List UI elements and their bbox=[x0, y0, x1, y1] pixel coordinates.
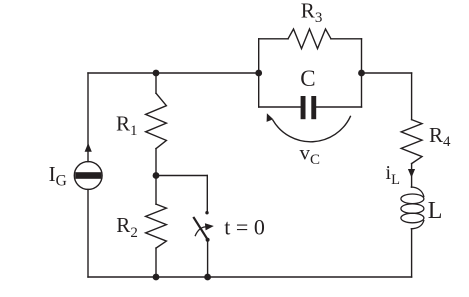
wire node b down to R2 bbox=[155, 176, 157, 205]
wire box right vertical bbox=[361, 39, 363, 107]
wire R4 to inductor with iL arrowhead bbox=[411, 164, 413, 188]
junction node b dot bbox=[153, 172, 160, 179]
current source IG bbox=[74, 143, 102, 189]
svg-text:R1: R1 bbox=[116, 112, 138, 140]
wire box bottom-left stub bbox=[259, 106, 301, 108]
iL current direction arrowhead bbox=[408, 169, 415, 178]
svg-text:R3: R3 bbox=[301, 0, 323, 26]
junction dot box right bbox=[358, 70, 365, 77]
vC polarity arc arrow bbox=[267, 113, 351, 141]
svg-text:C: C bbox=[300, 66, 315, 91]
svg-text:iL: iL bbox=[386, 162, 400, 188]
switch blade bbox=[194, 218, 208, 240]
wire left vertical lower bbox=[87, 189, 89, 277]
wire stub from node a down to R1 bbox=[155, 73, 157, 93]
capacitor C bbox=[301, 96, 317, 119]
inductor L bbox=[401, 187, 424, 229]
svg-text:R4: R4 bbox=[429, 123, 451, 150]
resistor R1 bbox=[146, 93, 167, 148]
switch pivot dot bbox=[206, 238, 210, 242]
resistor R2 bbox=[146, 204, 167, 248]
svg-text:t = 0: t = 0 bbox=[224, 215, 265, 240]
svg-text:vC: vC bbox=[300, 141, 321, 169]
wire right vertical upper bbox=[411, 73, 413, 120]
junction node a dot bbox=[153, 70, 160, 77]
resistor R4 bbox=[401, 120, 422, 164]
wire top-left horizontal (node a) bbox=[88, 72, 259, 74]
switch motion arrow bbox=[195, 223, 214, 235]
svg-text:IG: IG bbox=[49, 162, 67, 190]
junction dot bottom switch bbox=[204, 274, 211, 281]
wire bottom horizontal bbox=[88, 276, 412, 278]
wire switch branch vertical upper bbox=[206, 176, 208, 212]
wire box left vertical bbox=[258, 39, 260, 107]
wire node b to switch branch horizontal bbox=[156, 175, 207, 177]
wire box top-left stub bbox=[259, 38, 288, 40]
junction dot bottom R2 bbox=[153, 274, 160, 281]
svg-text:R2: R2 bbox=[116, 213, 138, 241]
wire top-right horizontal bbox=[362, 72, 412, 74]
switch upper terminal bbox=[205, 211, 208, 214]
junction dot box left bbox=[255, 70, 262, 77]
wire inductor to bottom bbox=[411, 229, 413, 277]
wire R1 to node b bbox=[155, 149, 157, 176]
wire R2 to bottom bbox=[155, 248, 157, 277]
resistor R3 bbox=[288, 29, 331, 49]
wire box top-right stub bbox=[331, 38, 362, 40]
wire box bottom-right stub bbox=[316, 106, 361, 108]
svg-text:L: L bbox=[428, 198, 443, 224]
wire switch to bottom bbox=[207, 242, 209, 278]
wire left vertical upper bbox=[87, 73, 89, 162]
